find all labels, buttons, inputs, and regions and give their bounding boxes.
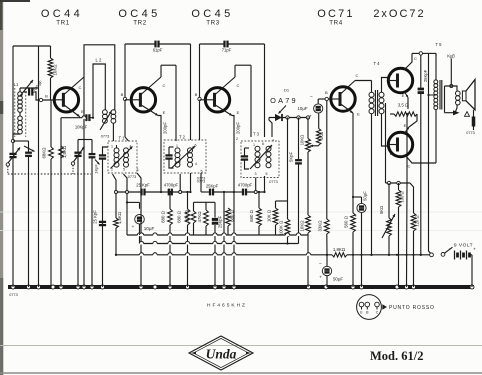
svg-text:T 3: T 3 bbox=[253, 132, 260, 137]
cap row wire C bbox=[201, 191, 210, 193]
capacitor 25KpF row C bbox=[209, 189, 211, 196]
wire cap to L2 secondary bbox=[89, 117, 93, 119]
T5 center tap bbox=[429, 94, 436, 96]
svg-text:6: 6 bbox=[262, 142, 264, 146]
punto rosso arrow bbox=[382, 304, 387, 310]
rail 1 bbox=[127, 234, 309, 236]
wire x406 down bbox=[406, 183, 409, 287]
svg-text:E: E bbox=[237, 110, 240, 115]
TR4 emitter path bbox=[340, 104, 353, 114]
electrolytic 50uF lower bbox=[326, 255, 328, 266]
svg-text:B: B bbox=[45, 94, 48, 99]
T3 winding right bbox=[266, 146, 271, 151]
node TR3 base bbox=[198, 97, 201, 100]
T1 tuning arrow bbox=[111, 147, 133, 169]
T1 dashed box bbox=[108, 141, 137, 173]
svg-text:4: 4 bbox=[272, 139, 274, 143]
svg-text:OA79: OA79 bbox=[270, 96, 298, 105]
svg-text:+: + bbox=[132, 224, 135, 229]
TR4 collector path bbox=[340, 81, 355, 95]
OC72b base wire bbox=[387, 145, 389, 147]
T1 winding right bbox=[124, 148, 129, 153]
wire T3 pin4 up bbox=[269, 118, 272, 138]
wire T1 pin2 to 1,5K bbox=[113, 174, 117, 192]
svg-text:1,8KΩ: 1,8KΩ bbox=[333, 247, 346, 252]
svg-text:25KpF: 25KpF bbox=[423, 69, 428, 82]
capacitor inside T3 bbox=[241, 155, 248, 157]
svg-text:1KpF: 1KpF bbox=[94, 164, 99, 174]
svg-text:5: 5 bbox=[266, 172, 268, 176]
svg-text:C: C bbox=[356, 73, 359, 78]
transistor TR4 OC71 bbox=[331, 87, 355, 111]
svg-text:680 Ω: 680 Ω bbox=[249, 209, 254, 222]
svg-text:T 5: T 5 bbox=[436, 42, 443, 47]
resistor 33K bbox=[326, 99, 328, 219]
svg-text:61pF: 61pF bbox=[153, 48, 163, 53]
punto rosso pin B bbox=[365, 302, 370, 307]
node diode out c bbox=[306, 116, 309, 119]
svg-text:10KΩ: 10KΩ bbox=[300, 220, 305, 232]
OC72b collector path bbox=[405, 155, 436, 163]
capacitor 4700pF (osc trimmer) bbox=[28, 88, 30, 95]
svg-text:T 1: T 1 bbox=[119, 136, 126, 141]
T2 winding right bbox=[188, 148, 193, 153]
capacitor 61pF bbox=[154, 41, 156, 48]
svg-text:0773: 0773 bbox=[269, 180, 277, 184]
TR2 collector path bbox=[140, 77, 161, 95]
resistor 120 ohm bbox=[410, 183, 414, 213]
svg-text:33KΩ: 33KΩ bbox=[318, 220, 323, 232]
resistor 1,5K (TR2) bbox=[115, 192, 117, 218]
svg-text:71pF: 71pF bbox=[222, 48, 232, 53]
transistor OC72 lower bbox=[388, 132, 412, 156]
TR3 base wire bbox=[200, 99, 206, 101]
svg-text:OC44: OC44 bbox=[41, 8, 83, 20]
transistor OC72 upper bbox=[388, 68, 412, 92]
svg-text:C: C bbox=[163, 83, 166, 88]
wire TR3 top rail bbox=[200, 43, 225, 45]
hops on rail 1 bbox=[137, 234, 141, 236]
wire x190.5 down to T2 bbox=[190, 44, 192, 140]
wire cap to base bbox=[34, 92, 53, 100]
svg-text:0773: 0773 bbox=[9, 293, 17, 297]
svg-text:3: 3 bbox=[255, 172, 257, 176]
resistor 10K lower bbox=[306, 215, 311, 233]
hop emitter wire over x84 bbox=[82, 117, 86, 119]
resistor 680 (d) bbox=[258, 192, 260, 208]
svg-text:C: C bbox=[376, 311, 379, 315]
svg-text:2: 2 bbox=[179, 160, 181, 164]
capacitor 10KpF (TR1 emitter) bbox=[85, 114, 87, 121]
wire 10uF loop bbox=[123, 174, 127, 192]
svg-text:120 Ω: 120 Ω bbox=[415, 215, 420, 226]
wire T2 pin3 down bbox=[179, 174, 181, 192]
svg-text:10KΩ: 10KΩ bbox=[300, 135, 305, 146]
svg-text:6: 6 bbox=[195, 144, 197, 148]
svg-text:0773: 0773 bbox=[128, 175, 136, 179]
wire vertical x13 bbox=[12, 46, 14, 141]
node osc section bbox=[71, 162, 74, 165]
svg-text:E: E bbox=[163, 110, 166, 115]
svg-text:680 Ω: 680 Ω bbox=[161, 210, 166, 223]
svg-text:2: 2 bbox=[111, 168, 113, 172]
capacitor 4700pF row D bbox=[242, 189, 244, 196]
volume potentiometer 10K bbox=[307, 118, 309, 139]
electrolytic 10uF (TR2) bbox=[135, 214, 145, 224]
T2 winding left bbox=[175, 148, 180, 153]
capacitor 25KpF output bbox=[420, 55, 422, 88]
svg-text:200pF: 200pF bbox=[236, 122, 241, 134]
svg-text:B: B bbox=[121, 92, 124, 97]
svg-text:L1: L1 bbox=[14, 82, 19, 87]
TR1 collector wire bbox=[63, 77, 84, 95]
capacitor 71pF bbox=[223, 41, 225, 48]
speaker terminal arrow bbox=[453, 110, 460, 115]
T3 winding left bbox=[255, 146, 260, 151]
resistor 680 (a) bbox=[169, 192, 171, 209]
svg-text:50μF: 50μF bbox=[333, 277, 343, 282]
T5 core bbox=[439, 80, 441, 110]
rail 3 (battery minus) bbox=[116, 254, 332, 256]
svg-text:4700pF: 4700pF bbox=[164, 183, 179, 188]
resistor 10K (agc) bbox=[193, 202, 195, 211]
svg-text:100K Ω: 100K Ω bbox=[279, 220, 284, 235]
svg-text:PUNTO ROSSO: PUNTO ROSSO bbox=[389, 305, 435, 311]
svg-text:−: − bbox=[310, 95, 313, 101]
wire osc cap top bbox=[78, 139, 92, 141]
resistor 10K (det) bbox=[275, 201, 277, 208]
resistor 10K (TR1 base) bbox=[50, 46, 52, 58]
svg-text:T 2: T 2 bbox=[179, 135, 186, 140]
page top edge mark bbox=[0, 0, 30, 2]
svg-text:C: C bbox=[408, 164, 411, 169]
variable capacitor C1a (tuning) bbox=[9, 153, 16, 155]
diode OA79 bbox=[275, 114, 282, 121]
svg-text:Unda: Unda bbox=[206, 347, 237, 362]
OC72a emitter path bbox=[404, 91, 408, 98]
svg-text:3,5 Ω: 3,5 Ω bbox=[398, 103, 409, 108]
svg-text:4: 4 bbox=[130, 145, 132, 149]
svg-text:10KΩ: 10KΩ bbox=[53, 64, 58, 76]
svg-text:−: − bbox=[448, 247, 451, 253]
svg-text:TR3: TR3 bbox=[206, 20, 220, 27]
battery 9V bbox=[454, 251, 456, 260]
svg-text:0773: 0773 bbox=[101, 135, 109, 139]
svg-text:1,5KΩ: 1,5KΩ bbox=[62, 145, 67, 158]
svg-text:50μF: 50μF bbox=[363, 191, 368, 201]
wire x84 down bbox=[83, 77, 85, 287]
capacitor 1KpF (T1) bbox=[99, 154, 106, 156]
svg-text:D1: D1 bbox=[284, 88, 290, 93]
wire vertical x38.5 bbox=[38, 46, 40, 287]
wire T2 pin5 down bbox=[200, 173, 202, 192]
TR4 base wire bbox=[331, 98, 336, 100]
svg-text:TR4: TR4 bbox=[329, 20, 343, 27]
oscillator coil L2 secondary bbox=[103, 110, 108, 115]
svg-text:47KΩ: 47KΩ bbox=[197, 211, 202, 223]
T4 secondary bbox=[379, 92, 384, 97]
svg-text:10K Ω: 10K Ω bbox=[185, 209, 190, 222]
svg-text:Kμβ: Kμβ bbox=[447, 54, 455, 59]
svg-text:200pF: 200pF bbox=[163, 122, 168, 134]
TR3 emitter path bbox=[215, 105, 233, 116]
wire x287.5 down bbox=[287, 118, 289, 202]
svg-text:OC45: OC45 bbox=[191, 8, 233, 20]
unda logo diamond bbox=[189, 336, 253, 370]
wire C1 to T5 bbox=[412, 52, 419, 54]
svg-text:B: B bbox=[390, 71, 393, 76]
wire T1 pin3 down bbox=[137, 173, 141, 287]
svg-text:B: B bbox=[325, 90, 328, 95]
wire T3 pin3 down bbox=[255, 178, 257, 193]
capacitor inside T2 bbox=[165, 154, 172, 156]
wire Kub down bbox=[450, 59, 452, 87]
capacitor trimmer C2b bbox=[89, 153, 96, 155]
svg-text:1KΩ: 1KΩ bbox=[319, 132, 324, 140]
resistor 47K bbox=[205, 202, 207, 210]
svg-text:25KpF: 25KpF bbox=[206, 184, 219, 189]
capacitor trimmer C1b bbox=[25, 152, 32, 154]
T5 primary bottom wire bbox=[435, 110, 437, 164]
svg-text:5: 5 bbox=[123, 168, 125, 172]
svg-text:1: 1 bbox=[111, 145, 113, 149]
svg-text:5: 5 bbox=[201, 170, 203, 174]
wire x190.5 T2 to row bbox=[190, 173, 192, 192]
svg-text:T 4: T 4 bbox=[374, 61, 381, 66]
OC72a base wire bbox=[387, 78, 389, 81]
wire T1 pin4 stub bbox=[116, 145, 118, 148]
wire C1 node to T5 bbox=[435, 53, 437, 80]
wire top rail stage1 bbox=[13, 45, 51, 47]
ground bus junction nodes bbox=[11, 285, 15, 289]
svg-text:HF465KHZ: HF465KHZ bbox=[207, 303, 247, 309]
svg-text:B: B bbox=[390, 151, 393, 156]
svg-text:10K Ω: 10K Ω bbox=[267, 209, 272, 222]
capacitor 25KpF (osc) bbox=[102, 200, 104, 221]
punto rosso pin E bbox=[359, 302, 364, 307]
svg-text:560 Ω: 560 Ω bbox=[344, 215, 349, 228]
hops on rail 3 bbox=[139, 254, 143, 256]
svg-text:E: E bbox=[402, 93, 405, 98]
OA79 pointer arrow bbox=[279, 106, 287, 114]
page left scan edge bbox=[0, 0, 3, 375]
wire y202 link bbox=[194, 201, 216, 203]
node base TR1 bbox=[39, 98, 42, 101]
wire emitter to cap bbox=[85, 117, 87, 119]
svg-text:OC71: OC71 bbox=[317, 8, 355, 20]
svg-text:25KpF: 25KpF bbox=[218, 215, 223, 228]
wire 3,5 left elbow bbox=[390, 108, 408, 114]
svg-text:5KΩ: 5KΩ bbox=[379, 206, 384, 214]
svg-text:10μF: 10μF bbox=[144, 226, 155, 231]
punto rosso pin C bbox=[375, 302, 380, 307]
resistor 100 ohm bbox=[398, 183, 400, 190]
wire L2 outer frame bbox=[84, 45, 115, 110]
svg-text:+: + bbox=[309, 114, 312, 119]
T4 center tap bbox=[382, 102, 389, 104]
cap row wire D bbox=[234, 191, 243, 193]
T4 sec top to base1 bbox=[382, 78, 389, 93]
potentiometer 5K bbox=[388, 183, 390, 218]
TR2 base wire bbox=[125, 99, 131, 101]
bias wire y183 bbox=[386, 182, 411, 184]
resistor 68K bbox=[50, 100, 52, 147]
svg-text:4700pF: 4700pF bbox=[238, 183, 253, 188]
ganged tuning dashed link bbox=[8, 173, 91, 175]
electrolytic 10uF (det) bbox=[314, 104, 323, 113]
resistor 680 (c) bbox=[227, 192, 229, 208]
wire electro to base bbox=[317, 99, 319, 104]
T2 tuning arrow bbox=[171, 146, 195, 169]
transistor TR1 OC44 bbox=[54, 88, 78, 112]
svg-text:1,5KΩ: 1,5KΩ bbox=[117, 211, 122, 224]
svg-text:TR2: TR2 bbox=[133, 20, 147, 27]
TR1 emitter wire bbox=[63, 105, 79, 117]
wire x224 down bbox=[223, 192, 225, 287]
antenna coil L1 bbox=[18, 92, 23, 97]
transistor TR2 OC45 bbox=[131, 88, 155, 112]
ground bus bbox=[8, 285, 474, 289]
svg-text:OC45: OC45 bbox=[118, 8, 160, 20]
wire 3,5 mid down bbox=[406, 114, 408, 183]
svg-text:E: E bbox=[404, 123, 407, 128]
node diode out b bbox=[297, 116, 300, 119]
svg-text:C: C bbox=[237, 83, 240, 88]
svg-text:4: 4 bbox=[195, 162, 197, 166]
svg-text:2: 2 bbox=[236, 137, 238, 141]
separator line above footer bbox=[0, 345, 482, 347]
TR2 emitter path bbox=[140, 105, 158, 116]
resistor 1,8K on rail 3 bbox=[332, 253, 347, 257]
svg-text:3: 3 bbox=[137, 168, 139, 172]
T4 core bbox=[374, 90, 376, 116]
svg-text:5KpF: 5KpF bbox=[289, 152, 294, 162]
svg-text:10μF: 10μF bbox=[297, 106, 307, 111]
T3 dashed box bbox=[241, 141, 279, 178]
OC72a collector path bbox=[404, 53, 412, 70]
capacitor 25KpF (dark) bbox=[214, 202, 216, 217]
punto rosso circle bbox=[357, 295, 382, 320]
svg-text:680 Ω: 680 Ω bbox=[230, 209, 235, 222]
diode wire bbox=[269, 117, 308, 119]
svg-text:Mod. 61/2: Mod. 61/2 bbox=[370, 349, 423, 363]
T5 secondary loop bbox=[445, 86, 458, 91]
svg-text:2xOC72: 2xOC72 bbox=[373, 8, 425, 20]
svg-text:L 2: L 2 bbox=[96, 58, 102, 63]
resistor 560 (TR4 emitter) bbox=[351, 213, 356, 232]
svg-text:680 Ω: 680 Ω bbox=[177, 210, 182, 223]
wire x234 down bbox=[233, 192, 235, 287]
TR3 collector path bbox=[215, 77, 236, 95]
svg-text:+: + bbox=[319, 275, 322, 280]
capacitor 25KpF row A bbox=[140, 189, 142, 196]
wire ct down bbox=[385, 103, 387, 183]
svg-text:10KpF: 10KpF bbox=[75, 125, 88, 130]
wire y201 link bbox=[276, 200, 288, 202]
svg-text:9 VOLT: 9 VOLT bbox=[454, 243, 473, 249]
node x93 on emitter wire bbox=[92, 117, 94, 119]
wire L2 inner loop bbox=[93, 64, 105, 118]
resistor 1,5K (TR1 emitter) bbox=[59, 146, 64, 158]
svg-text:TR1: TR1 bbox=[56, 20, 70, 27]
resistor 680 (b) bbox=[187, 192, 189, 209]
svg-text:0773: 0773 bbox=[197, 180, 205, 184]
cap row wire B bbox=[161, 191, 169, 193]
transistor TR3 OC45 bbox=[205, 88, 229, 112]
svg-text:C: C bbox=[414, 56, 417, 61]
node collector top bbox=[419, 52, 422, 55]
L1 dashed frame bbox=[14, 88, 16, 137]
svg-text:1: 1 bbox=[253, 143, 255, 147]
wire TR2 base vertical bbox=[124, 44, 126, 99]
oscillator variable capacitor C2a bbox=[74, 152, 81, 154]
electrolytic 50uF upper bbox=[353, 196, 362, 198]
node TR4 base bbox=[325, 97, 328, 100]
svg-text:25 KpF: 25 KpF bbox=[93, 210, 98, 224]
T4 primary bbox=[369, 92, 374, 97]
svg-text:E: E bbox=[357, 112, 360, 117]
svg-text:−: − bbox=[319, 261, 322, 267]
node diode out a bbox=[286, 116, 289, 119]
wire L1 top link bbox=[20, 87, 39, 89]
oscillator coil L2 primary bbox=[111, 110, 116, 115]
TR1 emitter rail bbox=[61, 117, 83, 119]
svg-text:B: B bbox=[195, 92, 198, 97]
T1 winding left bbox=[114, 148, 119, 153]
speaker thermistor bbox=[473, 110, 475, 117]
resistor 1K (TR4) bbox=[318, 113, 320, 128]
node TR2 base bbox=[123, 97, 126, 100]
T5 primary winding bbox=[434, 80, 438, 84]
svg-text:C: C bbox=[79, 85, 82, 90]
T3 tuning arrow bbox=[250, 145, 272, 169]
page bottom edge line bbox=[0, 372, 482, 374]
rail 3 junction dots bbox=[115, 254, 117, 256]
faint fold line 2 bbox=[0, 230, 482, 232]
faint fold line 1 bbox=[0, 211, 482, 213]
T2 dashed box bbox=[164, 140, 206, 173]
wire x264.5 down bbox=[264, 176, 266, 192]
L2 trimmer arrow bbox=[100, 111, 112, 130]
hops on rail 2 bbox=[139, 242, 143, 244]
svg-text:+: + bbox=[473, 248, 476, 253]
svg-text:25 KpF: 25 KpF bbox=[136, 183, 150, 188]
speaker terminal triangle bbox=[465, 112, 470, 117]
T5 secondary winding bbox=[456, 91, 461, 96]
OC72b emitter path bbox=[404, 127, 409, 134]
svg-text:1: 1 bbox=[176, 144, 178, 148]
loudspeaker bbox=[462, 91, 466, 101]
svg-text:+: + bbox=[354, 214, 357, 219]
svg-text:0773: 0773 bbox=[466, 131, 474, 135]
resistor 100K bbox=[285, 219, 290, 237]
pot wiper arrow bbox=[318, 144, 320, 147]
T4 sec bottom to base2 bbox=[382, 114, 389, 146]
wire x264.5 down to T3 bbox=[264, 44, 266, 137]
battery wire bbox=[453, 254, 455, 256]
svg-text:100 Ω: 100 Ω bbox=[400, 191, 405, 202]
cap row wire A bbox=[116, 191, 141, 193]
wire vertical x28.5 bbox=[28, 141, 30, 152]
svg-text:68KΩ: 68KΩ bbox=[42, 147, 47, 159]
wire L1 bottom to node bbox=[13, 134, 20, 141]
capacitor 4700pF row B bbox=[168, 189, 170, 196]
node L1/tuning bbox=[11, 139, 14, 142]
wire TR3 base vertical bbox=[199, 44, 201, 99]
resistor 3,5 ohm bbox=[390, 113, 394, 115]
wire TR2 top rail bbox=[125, 43, 155, 45]
wire L1 tap to cap bbox=[24, 91, 27, 93]
